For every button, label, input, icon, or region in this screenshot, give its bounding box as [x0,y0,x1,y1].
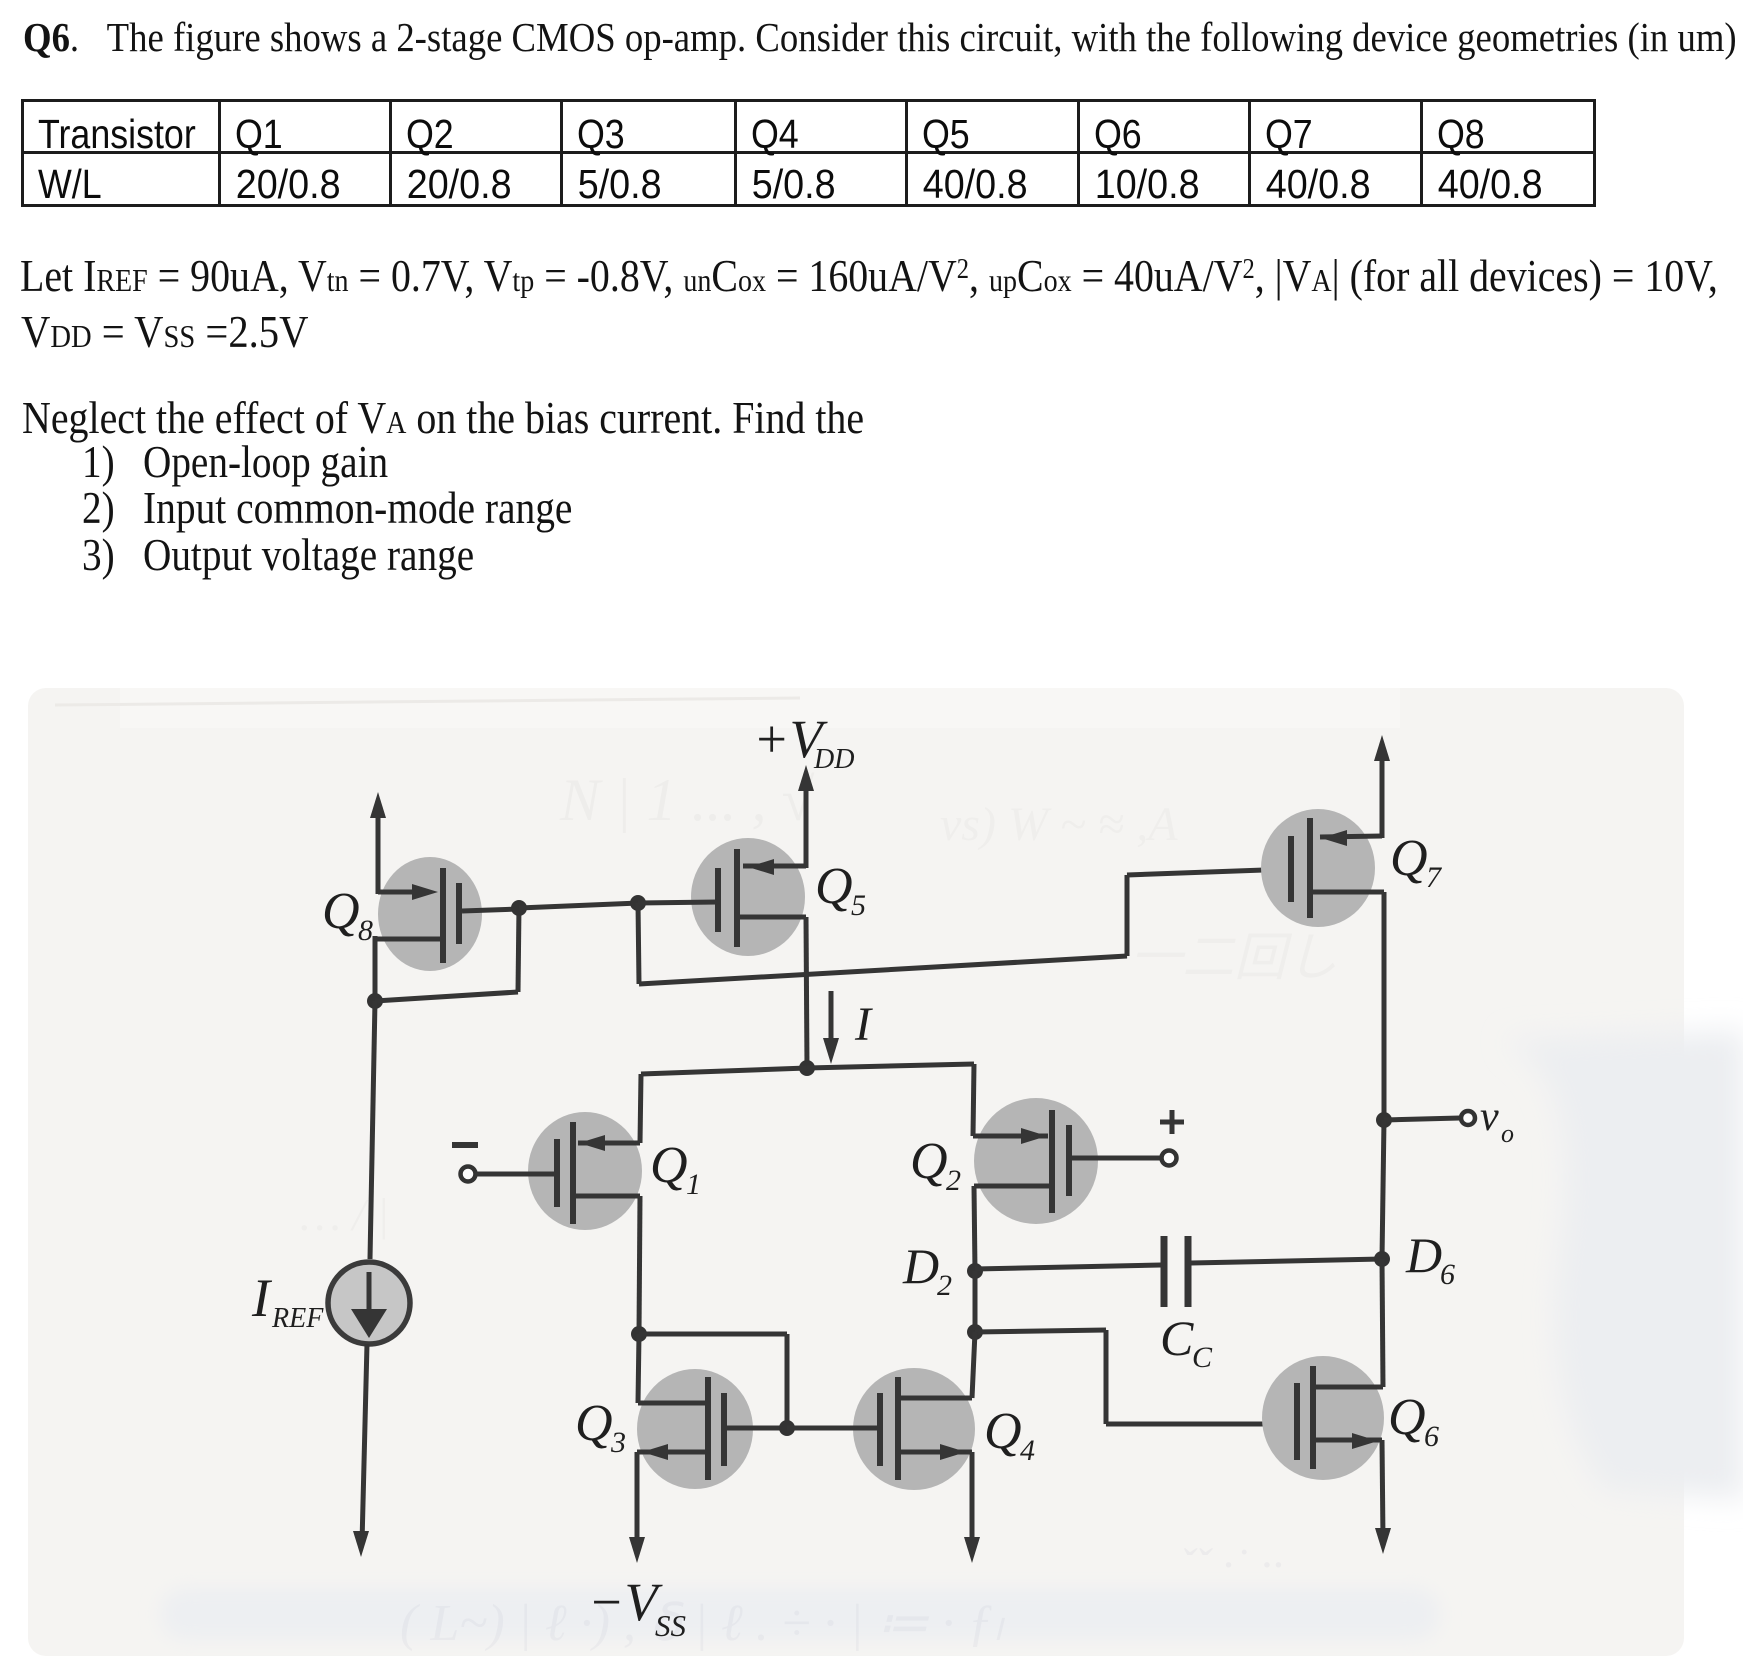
wire branch node to right [975,1330,1106,1332]
wire Q6 source to -VSS [1382,1440,1383,1540]
svg-text:Q: Q [910,1133,948,1190]
node tail (sources of Q1/Q2) [799,1060,815,1076]
node Q8/Q5 gate [511,900,527,916]
wire D2 down to Q6-gate branch node [973,1271,978,1332]
wire Q8 drain node down to IREF [370,1001,375,1259]
svg-text:D: D [1405,1227,1442,1283]
svg-text:… / |: … / | [300,1189,389,1240]
transistor Q5 body circle [691,838,805,956]
transistor Q3 gate bar [721,1393,727,1466]
-VSS arrowhead (Q6) [1375,1528,1391,1554]
transistor Q5 gate lead [638,902,718,903]
scan wash right [1505,1030,1743,1500]
wire branch node down to Q4 drain [972,1332,975,1398]
wire gate bus towards Q7 (long horizontal) [639,956,1127,984]
scan wash bottom [160,1588,1440,1640]
wire Q7 source to +VDD [1380,749,1385,838]
node Q3 drain / gates of Q3-Q4 [779,1420,795,1436]
scan wash top strip [120,688,1400,728]
wire Q5 drain down to tail node [806,917,807,1068]
wire Q2 drain down to node D2 [974,1186,975,1271]
svg-text:2: 2 [937,1269,952,1302]
parameters paragraph [20,253,1718,299]
wire Cc to node D6 [1191,1259,1382,1263]
wire Q8 source to +VDD [376,806,381,894]
transistor Q7 source arrowhead [1321,830,1347,846]
transistor Q4 gate lead [787,1426,877,1431]
transistor Q2 body circle [974,1098,1098,1224]
wire D2 to capacitor Cc [975,1265,1161,1269]
scan streak line [55,698,800,705]
title line [23,17,1737,59]
svg-text:1: 1 [686,1168,701,1201]
svg-text:I: I [854,998,873,1051]
transistor Q1 source lead [578,1141,640,1146]
transistor Q2 gate lead [1072,1156,1162,1161]
wire IREF to -VSS [362,1344,367,1543]
+VDD rail arrowhead (left) [370,792,386,818]
wire output node down to D6 [1382,1120,1384,1259]
wire output node to terminal [1384,1118,1460,1120]
transistor Q4 gate bar [877,1393,883,1466]
transistor Q3 source lead [637,1450,705,1455]
transistor Q4 body circle [853,1368,975,1490]
transistor Q5 source arrowhead [748,859,774,875]
device geometry table [21,99,1596,207]
transistor Q5 source lead (PMOS arrow into channel) [743,864,806,869]
svg-text:ˇˇ ·˙ ··: ˇˇ ·˙ ·· [1180,1539,1283,1590]
transistor Q3 source arrowhead (NMOS, out) [642,1444,668,1460]
wire Q7 drain down to output node [1382,892,1387,1120]
transistor Q2 gate bar [1066,1125,1072,1196]
wire Q1 drain node to Q3/Q4 gate node (horizontal) [639,1332,787,1337]
svg-text:Q: Q [575,1395,613,1452]
svg-text:5: 5 [851,889,866,922]
-VSS arrowhead (Q3) [629,1537,645,1563]
wire D6 down to Q6 drain [1382,1259,1383,1387]
-VSS arrowhead (IREF) [353,1531,369,1557]
transistor Q5 drain lead [737,915,806,920]
transistor Q2 drain lead [974,1184,1050,1189]
svg-text:Q: Q [1388,1389,1426,1446]
transistor Q1 source arrowhead (PMOS) [579,1135,605,1151]
wire gate bus into Q7 gate [1127,869,1291,875]
wire down to Q3/Q4 gate node [785,1334,790,1428]
svg-text:DD: DD [813,744,854,775]
transistor Q6 source arrowhead (NMOS, out) [1352,1433,1378,1449]
svg-text:Q: Q [322,883,360,940]
current source IREF circle [328,1262,410,1344]
transistor Q8 channel bar [440,868,446,963]
svg-text:o: o [1501,1119,1514,1148]
svg-text:6: 6 [1440,1258,1455,1291]
transistor Q2 source arrowhead (PMOS, into channel) [1021,1128,1047,1144]
wire gate bus down from Q5 gate node [638,903,639,984]
svg-text:vs) W ~ ≈ ,A: vs) W ~ ≈ ,A [940,798,1178,851]
transistor Q8 body circle [378,857,482,971]
find-the list [22,395,864,441]
svg-text:C: C [1192,1341,1213,1374]
svg-text:D: D [902,1238,939,1294]
transistor Q2 source lead [973,1134,1048,1139]
non-inverting input terminal [1162,1151,1177,1166]
svg-text:Q: Q [815,858,853,915]
inverting input minus sign [452,1142,478,1148]
current source IREF arrowhead [351,1309,387,1338]
transistor Q8 source arrowhead [412,884,438,900]
inverting input terminal [461,1167,476,1182]
output terminal vo [1461,1111,1475,1125]
svg-text:一二回し: 一二回し [1130,930,1338,987]
wire Q8 drain down [373,936,378,1002]
svg-text:v: v [1480,1094,1499,1140]
svg-text:( L~) | ℓ ·) , ẟ | ℓ . ÷ · | ≔: ( L~) | ℓ ·) , ẟ | ℓ . ÷ · | ≔ · ƒₗ [400,1595,1006,1652]
transistor Q6 drain lead [1313,1385,1383,1390]
transistor Q3 drain lead [638,1401,705,1406]
transistor Q3 body circle [637,1369,753,1489]
transistor Q4 source lead [898,1450,972,1455]
transistor Q1 gate lead [475,1172,554,1177]
transistor Q1 gate bar [554,1139,560,1207]
transistor Q4 drain lead [898,1396,972,1401]
wire tail left down to Q1 source [640,1074,641,1143]
transistor Q7 source lead (PMOS arrow into channel) [1320,836,1382,837]
transistor Q4 channel bar [895,1377,901,1480]
wire branch down [1104,1330,1109,1424]
transistor Q5 channel bar [734,849,740,947]
svg-text:4: 4 [1020,1434,1035,1467]
wire Q1 drain down [639,1196,640,1334]
transistor Q2 channel bar [1049,1110,1055,1213]
transistor Q6 body circle [1262,1356,1384,1480]
wire Q8 drain to gate-node (vertical) [518,906,519,992]
node Q8 drain junction [367,993,383,1009]
transistor Q1 channel bar [570,1122,576,1224]
wire gate bus rise at Q7 [1125,875,1130,956]
+VDD rail arrowhead (right) [1374,735,1390,761]
transistor Q8 gate lead [462,909,520,911]
wire Q5 source to +VDD [804,779,809,868]
svg-text:6: 6 [1424,1420,1439,1453]
wire Q1 drain to Q3 drain lead [638,1334,639,1403]
svg-text:I: I [251,1268,273,1328]
transistor Q1 body circle [528,1112,642,1230]
wire branch to Q6 gate [1106,1422,1294,1427]
svg-text:Q: Q [1390,830,1428,887]
transistor Q6 gate bar [1294,1383,1300,1460]
+VDD rail arrowhead (center) [798,765,814,791]
svg-text:−V: −V [588,1572,663,1632]
svg-text:C: C [1160,1310,1194,1366]
wire Q4 source to -VSS [970,1452,975,1549]
node Q1 drain / Q3 drain junction [631,1326,647,1342]
wire tail node to left [641,1068,807,1074]
transistor Q7 channel bar [1307,818,1313,918]
transistor Q5 gate bar [715,868,721,932]
capacitor Cc right plate [1185,1236,1192,1307]
current source IREF arrow shaft [367,1272,372,1314]
svg-text:Q: Q [984,1403,1022,1460]
svg-text:7: 7 [1426,861,1443,894]
transistor Q8 drain lead [375,937,443,942]
node D2 [967,1263,983,1279]
svg-text:Q: Q [650,1137,688,1194]
svg-text:SS: SS [655,1608,686,1643]
node D6 [1374,1251,1390,1267]
svg-text:N | 1 ... , √: N | 1 ... , √ [559,767,815,833]
transistor Q3 gate lead [727,1426,787,1431]
transistor Q6 source lead [1313,1438,1382,1443]
transistor Q7 gate bar [1288,836,1294,902]
non-inverting input plus sign [1160,1120,1184,1125]
-VSS arrowhead (Q4) [964,1537,980,1563]
node Q5 gate [630,895,646,911]
transistor Q7 drain lead [1310,890,1384,895]
transistor Q3 channel bar [705,1377,711,1480]
wire Q8 drain to gate-node (horizontal) [375,992,518,1001]
transistor Q7 body circle [1261,809,1375,927]
wire tail right down to Q2 source [973,1064,974,1136]
node output vo [1376,1112,1392,1128]
node Q6 gate branch [967,1324,983,1340]
svg-text:REF: REF [271,1303,324,1334]
current I arrowhead [823,1038,839,1064]
scan page wash [28,688,1684,1656]
transistor Q6 channel bar [1310,1366,1316,1469]
wire Q3 source to -VSS [635,1452,640,1549]
transistor Q8 source lead (PMOS arrow into channel) [378,890,428,895]
svg-text:3: 3 [610,1426,626,1459]
transistor Q1 drain lead [576,1194,640,1199]
capacitor Cc left plate [1161,1236,1168,1307]
wire gate bus Q8 to Q5 [519,903,638,908]
wire tail node to right [807,1064,974,1068]
svg-text:2: 2 [946,1164,961,1197]
svg-text:8: 8 [358,914,373,947]
current I arrow shaft [829,991,834,1049]
transistor Q8 gate bar [456,883,462,944]
transistor Q4 source arrowhead (NMOS, out) [940,1444,966,1460]
